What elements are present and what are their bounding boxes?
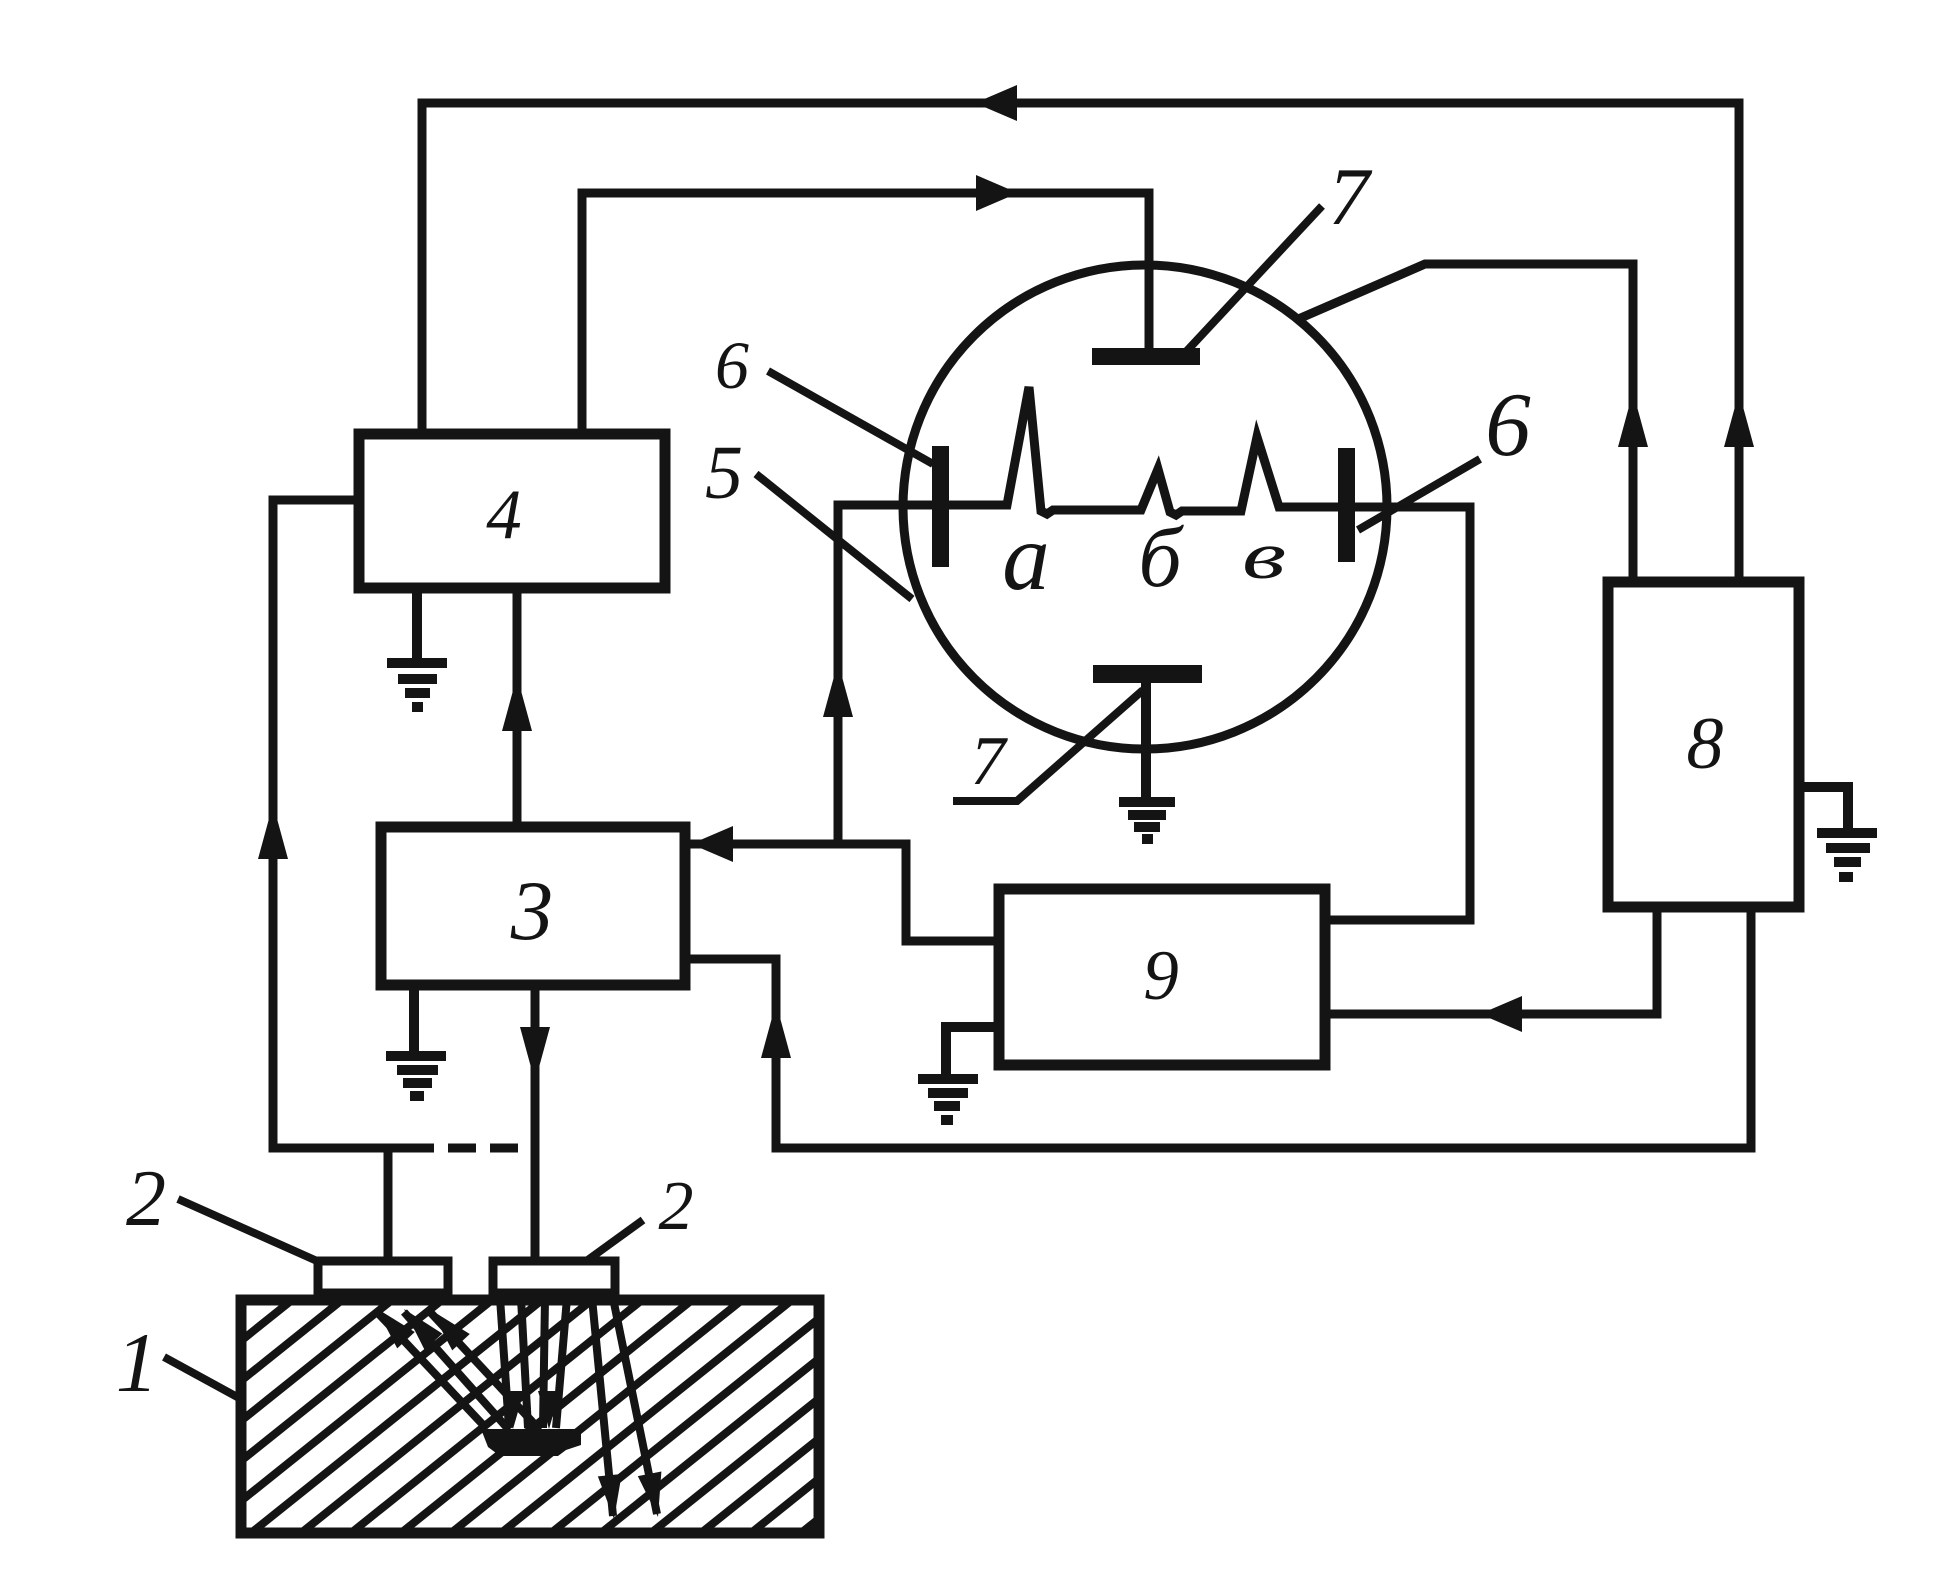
arrow up on wire block 3 to block 4: [502, 676, 532, 731]
svg-text:1: 1: [116, 1316, 159, 1410]
arrow left on top feedback line: [975, 85, 1017, 121]
transducer 2 left: [318, 1261, 448, 1293]
wire CRT left plate baseline stub: [838, 505, 932, 844]
deflection plate 6 right: [1338, 448, 1355, 562]
CRT screen waveform trace with echoes a b v: [949, 387, 1338, 515]
wire dashed line down to left transducer: [384, 1148, 393, 1262]
CRT top plate 7: [1092, 348, 1200, 365]
svg-text:а: а: [1002, 504, 1050, 610]
wire top feedback line to block 4: [422, 103, 1739, 434]
wire block 4 bottom to block 3 top: [513, 588, 522, 826]
ground below CRT bottom plate 7: [1119, 683, 1175, 839]
CRT bottom plate 7: [1093, 665, 1202, 683]
flaw (defect) in specimen 1: [481, 1429, 581, 1456]
svg-text:6: 6: [1485, 374, 1531, 475]
svg-text:7: 7: [1329, 151, 1373, 242]
svg-text:3: 3: [510, 864, 554, 958]
wire block 4 left stub down to dashed sync line: [273, 500, 402, 1148]
svg-text:в: в: [1242, 519, 1286, 593]
svg-text:9: 9: [1143, 937, 1179, 1015]
block 8: [1608, 582, 1799, 907]
beam arrowheads down at flaw: [502, 1391, 524, 1429]
wire from CRT plate junction into block 3: [691, 844, 999, 941]
wire from block 4 to CRT top plate: [582, 193, 1149, 434]
pointer line label 1: [164, 1357, 272, 1416]
wire block 3 down to right transducer: [531, 987, 540, 1262]
svg-text:2: 2: [126, 1155, 166, 1243]
arrow right on line to CRT top plate: [976, 175, 1018, 211]
ground left of block 9: [918, 1027, 999, 1120]
transducer 2 right: [493, 1261, 615, 1293]
wire CRT right plate to block 9: [1326, 507, 1470, 920]
wire CRT bulb to block 8 top: [1303, 264, 1633, 582]
svg-text:8: 8: [1687, 703, 1724, 785]
wire block 3 to long bottom bus: [685, 908, 1751, 1148]
wire block 8 top right riser: [1735, 103, 1744, 582]
beam arrowheads at block bottom: [598, 1474, 626, 1520]
arrow up into block 8 right riser: [1724, 392, 1754, 447]
block 4: [359, 434, 665, 588]
deflection plate 6 left: [932, 446, 949, 567]
arrow up on wire to long bottom bus: [761, 1003, 791, 1058]
svg-text:4: 4: [486, 476, 522, 554]
pointer line label 6 right: [1358, 459, 1480, 530]
svg-text:б: б: [1138, 509, 1184, 605]
ground right of block 8: [1799, 787, 1877, 877]
arrow left into block 3: [691, 826, 733, 862]
arrow left into block 9 from block 8: [1480, 996, 1522, 1032]
test specimen block 1: [0, 1300, 1092, 1533]
pointer line label 7 top: [1183, 206, 1322, 355]
block 3: [381, 827, 685, 985]
reflected beams toward transducer 2 left: [376, 1311, 540, 1430]
ground below block 3: [386, 987, 446, 1096]
pointer line label 5: [756, 474, 912, 599]
svg-text:2: 2: [659, 1168, 694, 1245]
CRT tube 5 (screen circle): [903, 265, 1387, 749]
arrow up into block 8 left riser: [1618, 392, 1648, 447]
wire block 8 bottom to block 9: [1326, 908, 1657, 1014]
reflected beam arrowheads: [367, 1300, 415, 1349]
arrow up on wire toward CRT left plate: [823, 662, 853, 717]
ultrasonic beam fan from transducer 2 right: [500, 1298, 657, 1516]
pointer line label 6 left: [768, 371, 933, 464]
arrow down on wire block 3 to transducer: [520, 1027, 550, 1082]
svg-text:7: 7: [971, 723, 1009, 800]
svg-text:5: 5: [705, 431, 743, 515]
pointer line label 2 left: [178, 1199, 326, 1265]
pointer line label 2 right: [574, 1220, 643, 1270]
arrow up on wire x273 toward block 4: [258, 804, 288, 859]
svg-text:6: 6: [715, 327, 749, 403]
ground below block 4: [387, 588, 447, 707]
hatching of specimen 1: [0, 1300, 1092, 1533]
wire dashed segment of sync line: [406, 1144, 537, 1153]
block 9: [999, 889, 1325, 1065]
pointer line label 7 bottom: [953, 690, 1143, 801]
